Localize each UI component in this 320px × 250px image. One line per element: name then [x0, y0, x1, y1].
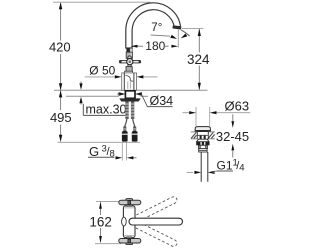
- dimension D63: [183, 112, 190, 114]
- top view spout: [129, 218, 183, 225]
- hose right: [133, 119, 135, 127]
- threaded stud right: [131, 102, 134, 120]
- drain body in counter gap: [196, 132, 198, 140]
- counter bottom line right: [141, 95, 149, 97]
- threaded stud left: [125, 102, 128, 120]
- svg-text:G: G: [89, 144, 99, 159]
- dashed swivel arm lower: [129, 219, 178, 248]
- dimension 162: [100, 203, 102, 216]
- drain striped section: [198, 145, 207, 148]
- body cylinder outer: [122, 73, 137, 90]
- dimension 32-45: [232, 114, 234, 121]
- column upper: [126, 52, 132, 58]
- aerator: [172, 25, 181, 29]
- body cylinder inner lines: [123, 73, 125, 90]
- cross handle vertical bar: [128, 56, 131, 67]
- drain ring section: [199, 149, 207, 152]
- svg-text:8: 8: [110, 149, 115, 160]
- svg-text:32-45: 32-45: [216, 129, 249, 144]
- dimension 420 line: [60, 3, 62, 90]
- dimension 180: [131, 45, 138, 48]
- top view body: [123, 206, 135, 238]
- svg-text:495: 495: [50, 110, 72, 125]
- dimension 495 line: [60, 91, 62, 142]
- stem housing: [126, 67, 132, 72]
- drain flange: [195, 127, 210, 132]
- svg-text:162: 162: [89, 214, 112, 229]
- shank right arrow: [135, 92, 142, 96]
- drain flare: [197, 139, 209, 142]
- svg-text:Ø63: Ø63: [225, 99, 250, 114]
- spout tube: [126, 3, 181, 48]
- svg-text:420: 420: [49, 40, 71, 55]
- svg-text:max.30: max.30: [86, 103, 127, 117]
- drain tailpipe: [200, 152, 202, 182]
- top view handle bottom: [126, 237, 133, 245]
- svg-text:324: 324: [187, 52, 210, 67]
- body S-collar detail: [125, 75, 133, 81]
- dimension 420 arrows: [59, 2, 62, 9]
- dashed swivel arm upper: [129, 196, 178, 225]
- svg-text:G1: G1: [217, 159, 233, 173]
- locknut: [119, 98, 140, 101]
- column dark cap: [126, 48, 129, 52]
- dimension 324: [182, 28, 203, 30]
- G3/8 extension lines: [121, 143, 123, 161]
- dimension max.30: [80, 81, 82, 84]
- hose connector left: [123, 127, 126, 132]
- dimension G1 1/4: [187, 171, 193, 173]
- stem step ring: [125, 71, 133, 73]
- counter section band: [191, 132, 215, 139]
- dimension D34 leader: [142, 94, 148, 106]
- dimension 495 arrows: [59, 90, 62, 97]
- top view handle top: [126, 199, 133, 207]
- bottom extension line: [58, 141, 141, 143]
- shank left arrow: [119, 92, 126, 96]
- cross handle hub: [127, 59, 133, 65]
- counter bottom line left: [66, 95, 119, 97]
- top view: 162 extension lines: [96, 200, 121, 202]
- hose left: [125, 119, 127, 127]
- drain locknut: [196, 142, 209, 146]
- cross handle horizontal bar: [119, 60, 140, 63]
- counter top line: [54, 89, 208, 91]
- top extension line: [53, 1, 150, 3]
- svg-text:180: 180: [145, 39, 165, 53]
- drain extension lines: [195, 107, 197, 126]
- svg-text:Ø 50: Ø 50: [89, 64, 115, 78]
- svg-text:4: 4: [239, 163, 244, 174]
- 180 extension line: [177, 30, 179, 48]
- svg-text:7°: 7°: [151, 22, 162, 34]
- mounting shank: [125, 91, 135, 99]
- top view outlet ellipse: [122, 217, 127, 226]
- hose connector right: [133, 127, 136, 132]
